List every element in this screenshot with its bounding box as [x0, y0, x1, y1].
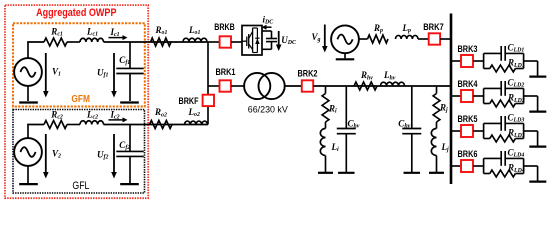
svg-text:GFL: GFL: [72, 180, 89, 192]
svg-text:BRK2: BRK2: [298, 69, 318, 79]
svg-text:GFM: GFM: [71, 94, 90, 105]
svg-text:BRK4: BRK4: [458, 79, 479, 89]
svg-text:66/230 kV: 66/230 kV: [248, 105, 289, 115]
svg-text:BRK5: BRK5: [458, 114, 478, 124]
svg-text:BRKB: BRKB: [214, 22, 235, 32]
svg-text:BRK7: BRK7: [423, 22, 444, 32]
svg-text:Aggregated OWPP: Aggregated OWPP: [36, 7, 116, 19]
svg-text:BRK3: BRK3: [458, 44, 478, 54]
svg-text:BRK1: BRK1: [216, 67, 236, 77]
svg-text:BRKF: BRKF: [179, 96, 199, 106]
svg-text:BRK6: BRK6: [458, 149, 478, 159]
